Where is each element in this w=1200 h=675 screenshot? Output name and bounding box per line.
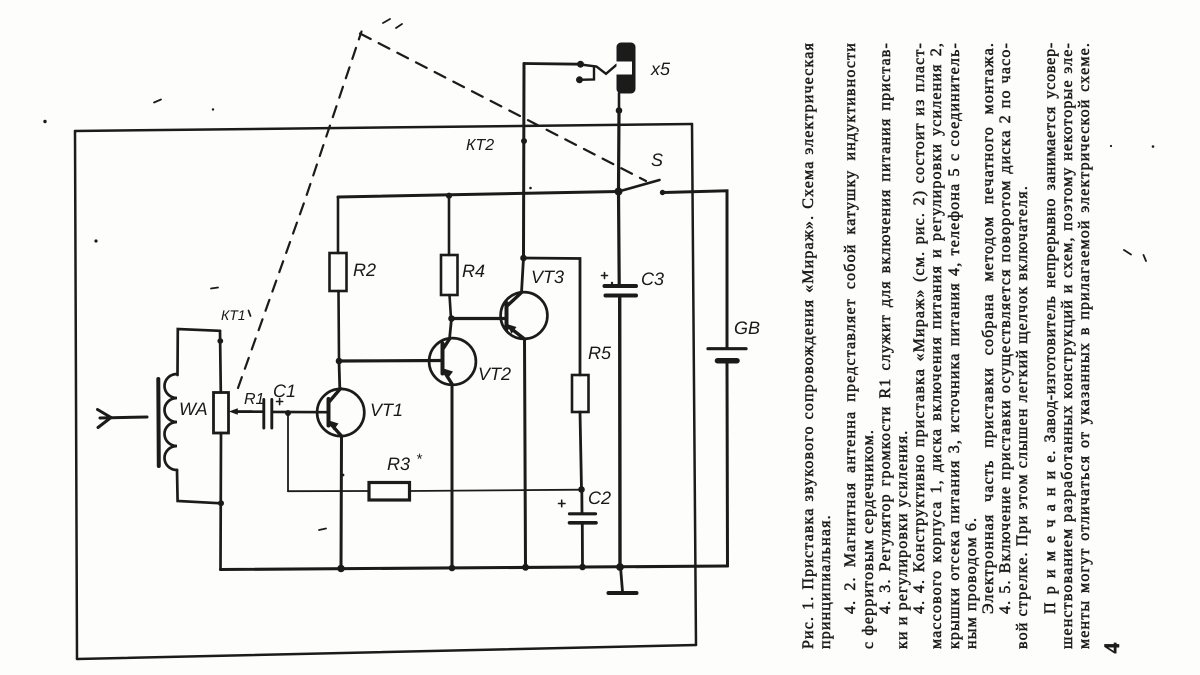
node: VT3 collector / R5 / phone line — [520, 255, 527, 262]
wire: feedback line right segment — [410, 490, 582, 491]
potentiometer R1 wiper arrow — [229, 408, 252, 414]
wire: VT2 collector riser — [450, 319, 452, 340]
node: R4 tap on supply rail — [446, 193, 452, 199]
node: C3 / ground symbol on ground rail — [616, 563, 624, 571]
node: jack contact pin upper — [577, 61, 584, 68]
svg-text:VT1: VT1 — [370, 400, 403, 420]
wire: C2 bottom to ground rail — [581, 524, 584, 568]
wire: R5 bottom to feedback node — [580, 412, 582, 490]
svg-text:х5: х5 — [650, 59, 671, 79]
resistor R3 — [369, 483, 410, 501]
switch S blade — [619, 180, 660, 192]
wire: collector node to R5 top corner — [524, 258, 581, 375]
svg-text:VT3: VT3 — [531, 267, 564, 287]
svg-text:S: S — [651, 150, 663, 170]
svg-text:R5: R5 — [588, 343, 612, 363]
wire: R2 riser — [337, 197, 340, 253]
node KT2 test point — [521, 138, 527, 144]
capacitor C3 — [605, 286, 637, 296]
dashed mechanical link R1 to apex — [238, 32, 362, 389]
rotated caption and body text column — [790, 0, 1200, 675]
node: switch fixed contact — [660, 190, 665, 195]
wire: switch contact to battery positive — [664, 191, 727, 347]
wire: VT3 collector riser to phone line — [522, 258, 524, 293]
resistor R4 — [441, 255, 458, 295]
antenna symbol — [98, 410, 148, 428]
wire: pot column top — [219, 331, 223, 393]
wire: coil top lead — [178, 329, 221, 375]
wire: C3 bottom to ground rail — [618, 296, 622, 567]
enclosure boundary box — [75, 124, 696, 659]
potentiometer R1 body — [214, 393, 229, 434]
ground symbol — [609, 567, 637, 593]
svg-text:R4: R4 — [462, 261, 485, 281]
svg-text:R1: R1 — [244, 391, 264, 408]
svg-text:C2: C2 — [588, 488, 611, 508]
wire: ground rail — [221, 566, 728, 570]
node KT1 test point — [217, 338, 223, 344]
wire: coil bottom lead — [177, 470, 221, 503]
wire: C2 top lead — [580, 490, 583, 513]
wire: R4 bottom to VT2 collector node — [450, 295, 452, 319]
wire: jack lower stub — [580, 67, 595, 80]
wire: C1 to VT1 base — [272, 411, 328, 414]
transistor VT1 — [317, 389, 364, 437]
resistor R2 — [330, 253, 347, 291]
svg-text:R3: R3 — [387, 454, 410, 474]
inductor WA coil — [165, 374, 178, 470]
svg-text:GB: GB — [734, 318, 760, 338]
node: VT1 collector / R2 / VT2 base — [336, 358, 343, 365]
node: jack contact pin lower — [576, 76, 583, 83]
polarity plus of C1 — [277, 398, 283, 404]
node: coil bottom / pot bottom junction — [218, 500, 224, 506]
wire: R3 feedback line tap at VT1 base — [285, 410, 291, 416]
svg-text:VT2: VT2 — [478, 364, 511, 384]
svg-text:КТ2: КТ2 — [466, 137, 494, 154]
node: jack bottom pin — [616, 107, 623, 114]
wire: pot bottom to ground rail corner — [219, 433, 222, 570]
transistor VT3 — [501, 292, 548, 339]
resistor R5 — [572, 375, 589, 412]
svg-text:C3: C3 — [641, 269, 664, 289]
wire: phone line vertical (jack to VT3 collector) — [522, 64, 526, 259]
node: VT1 emitter on ground rail — [337, 565, 345, 573]
wire: VT1 collector node to VT2 base — [339, 359, 443, 363]
ferrite rod of magnetic antenna — [156, 379, 161, 466]
svg-text:C1: C1 — [273, 381, 296, 401]
wire: feedback line left segment — [288, 490, 369, 492]
wire: switch node down to C3 — [617, 192, 621, 285]
connector X5 phone jack body — [617, 43, 636, 94]
node: R5 / R3 / C2 junction — [578, 486, 585, 493]
wire: R4 riser — [448, 196, 451, 255]
node: switch common / supply node — [615, 188, 623, 196]
wire: jack top lead — [524, 62, 581, 65]
transistor VT2 — [429, 338, 476, 385]
node: VT3 emitter on ground rail — [522, 564, 529, 571]
polarity plus of C3 — [602, 273, 608, 279]
svg-text:WA: WA — [179, 399, 208, 419]
stray ink marks — [43, 19, 1154, 530]
battery GB — [708, 349, 746, 361]
node: VT2 collector / R4 / VT3 base — [448, 315, 455, 322]
node: C2 on ground rail — [579, 564, 586, 571]
polarity plus of C2 — [559, 500, 566, 507]
node: VT2 emitter on ground rail — [449, 565, 456, 572]
wire: jack pin down to switch node — [617, 111, 621, 192]
wire: jack bottom tap — [618, 94, 621, 111]
svg-text:*: * — [416, 451, 423, 468]
capacitor C1 — [264, 400, 272, 429]
wire: VT2 collector node to VT3 base — [452, 317, 506, 320]
wire: battery negative to ground rail — [726, 364, 730, 567]
svg-text:R2: R2 — [353, 260, 376, 280]
dashed mechanical link apex to switch S — [360, 34, 646, 182]
capacitor C2 — [570, 514, 597, 523]
wire: VT1 collector riser — [338, 361, 342, 389]
wire: VT2 emitter down to ground rail — [451, 384, 454, 568]
wire: positive supply rail from R2 to switch — [338, 192, 619, 198]
wire: VT3 emitter down to ground rail — [525, 339, 526, 567]
wire: wiper to C1 — [234, 410, 264, 413]
wire: jack spring contact zigzag — [581, 65, 617, 74]
wire: R2 bottom to VT1 collector node — [337, 291, 340, 361]
wire: VT1 emitter down to ground rail — [340, 436, 344, 569]
svg-text:КТ1: КТ1 — [221, 307, 246, 323]
wire: feedback drop from base node — [287, 413, 289, 491]
